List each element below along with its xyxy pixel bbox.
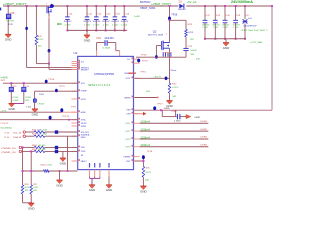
svg-text:VIO: VIO (81, 83, 86, 85)
svg-text:120mA: 120mA (140, 121, 151, 124)
svg-text:120mA: 120mA (140, 144, 151, 147)
svg-text:TP16: TP16 (171, 15, 178, 17)
svg-text:LP10V: LP10V (12, 97, 19, 99)
svg-text:TP8: TP8 (71, 107, 76, 109)
svg-text:VIN: VIN (126, 110, 131, 112)
svg-text:BAT54C: BAT54C (140, 1, 151, 4)
svg-text:1 302: 1 302 (112, 24, 119, 26)
svg-text:OUT3: OUT3 (125, 139, 131, 141)
svg-text:1 302: 1 302 (174, 121, 182, 123)
svg-text:OUT4: OUT4 (125, 147, 131, 149)
svg-text:D1: D1 (179, 1, 183, 3)
svg-text:TP11: TP11 (59, 86, 65, 88)
svg-text:+3V3_PL: +3V3_PL (153, 76, 162, 78)
svg-text:342: 342 (146, 91, 151, 93)
svg-text:SUP20V: SUP20V (93, 21, 101, 23)
svg-text:SUP20V: SUP20V (64, 21, 72, 23)
svg-text:R24: R24 (32, 134, 37, 136)
svg-text:3V2: 3V2 (1, 80, 7, 82)
svg-text:342: 342 (25, 190, 29, 192)
svg-text:1 302: 1 302 (222, 27, 228, 29)
svg-text:SUP20V: SUP20V (121, 21, 129, 23)
svg-text:342: 342 (48, 165, 52, 167)
svg-text:342: 342 (25, 100, 30, 102)
svg-text:1.302: 1.302 (102, 47, 111, 49)
svg-text:IOM: IOM (126, 114, 130, 116)
svg-text:VDD: VDD (81, 147, 86, 149)
svg-text:24V/4000mA: 24V/4000mA (231, 0, 254, 4)
svg-text:47k: 47k (25, 187, 31, 189)
svg-text:MISO: MISO (81, 137, 86, 139)
svg-text:GND: GND (164, 108, 171, 110)
svg-text:SPX2 1 N 1 3.4 2: SPX2 1 N 1 3.4 2 (88, 85, 111, 87)
svg-text:+VBAT_PROT: +VBAT_PROT (151, 3, 172, 6)
svg-text:1 302: 1 302 (103, 24, 110, 26)
svg-text:10R: 10R (37, 134, 42, 136)
svg-text:C16: C16 (68, 13, 73, 15)
svg-text:63.5 5x0 1uF 50V ?: 63.5 5x0 1uF 50V ? (242, 30, 269, 32)
svg-text:C13: C13 (12, 86, 17, 88)
svg-text:TP15: TP15 (140, 72, 146, 74)
svg-text:100R: 100R (33, 187, 38, 189)
svg-text:1 302: 1 302 (213, 27, 219, 29)
svg-text:C35: C35 (172, 111, 178, 113)
svg-text:2: 2 (166, 34, 168, 36)
svg-text:1 302: 1 302 (93, 24, 100, 26)
svg-text:C6: C6 (226, 15, 231, 17)
svg-text:1 302: 1 302 (202, 27, 208, 29)
svg-text:GND: GND (32, 114, 39, 116)
svg-text:+4.7V_RAIL: +4.7V_RAIL (250, 41, 263, 44)
svg-text:GND: GND (5, 40, 12, 42)
svg-text:R23: R23 (188, 24, 193, 26)
svg-text:U2: U2 (73, 52, 78, 55)
svg-text:VDDC: VDDC (81, 151, 86, 153)
svg-text:1u3F: 1u3F (134, 16, 141, 18)
svg-text:C18: C18 (116, 13, 121, 15)
svg-text:3Vout: 3Vout (170, 69, 176, 72)
svg-text:10uF16V: 10uF16V (104, 38, 114, 40)
svg-text:342: 342 (33, 190, 37, 192)
svg-text:4C2R: 4C2R (188, 32, 193, 34)
svg-text:SUP20V: SUP20V (102, 21, 110, 23)
svg-text:Q2: Q2 (153, 32, 157, 34)
svg-text:C10: C10 (88, 13, 93, 15)
svg-text:R27: R27 (33, 184, 38, 186)
svg-text:UDR4: UDR4 (201, 144, 208, 146)
svg-text:FLTR: FLTR (81, 99, 87, 101)
svg-text:C11: C11 (106, 13, 111, 15)
svg-text:OUT2: OUT2 (125, 131, 131, 133)
svg-text:3C: 3C (57, 22, 64, 26)
svg-text:0603UF50V: 0603UF50V (244, 25, 258, 27)
svg-text:SDA_M: SDA_M (13, 136, 21, 139)
svg-text:6.3uF10V: 6.3uF10V (6, 20, 15, 22)
svg-text:1N4: 1N4 (39, 94, 44, 96)
svg-text:BUK7Y3-100B: BUK7Y3-100B (148, 34, 164, 36)
svg-text:R26: R26 (25, 184, 30, 186)
svg-text:120mA: 120mA (140, 136, 151, 139)
svg-text:C8: C8 (236, 15, 241, 17)
svg-text:C4: C4 (216, 15, 221, 17)
svg-text:12R: 12R (190, 39, 194, 41)
svg-text:342: 342 (196, 58, 201, 60)
svg-text:GND: GND (28, 209, 35, 211)
svg-text:SCL_M: SCL_M (13, 133, 21, 135)
svg-text:GND: GND (89, 190, 96, 192)
svg-text:R201: R201 (32, 149, 38, 151)
svg-text:SENSE P: SENSE P (81, 69, 90, 71)
svg-text:342: 342 (145, 179, 150, 181)
svg-text:GND: GND (84, 40, 91, 42)
svg-text:LP10V: LP10V (25, 97, 32, 99)
svg-text:TP13: TP13 (142, 60, 148, 62)
svg-text:C17: C17 (246, 15, 251, 17)
svg-text:GND: GND (140, 191, 147, 193)
svg-text:TP17: TP17 (157, 103, 163, 105)
svg-text:342: 342 (38, 45, 42, 47)
svg-text:LP5912(3)PPR2: LP5912(3)PPR2 (94, 74, 115, 76)
svg-text:R202: R202 (32, 145, 38, 147)
svg-text:C75: C75 (188, 46, 193, 48)
svg-text:1u2: 1u2 (248, 18, 253, 20)
svg-text:VSYNC: VSYNC (81, 123, 87, 125)
svg-text:100nF: 100nF (190, 50, 197, 52)
svg-text:C12: C12 (97, 13, 102, 15)
svg-text:0R 342: 0R 342 (38, 145, 46, 147)
svg-text:SB540: SB540 (178, 9, 187, 11)
svg-text:1: 1 (46, 4, 48, 6)
svg-text:120mA: 120mA (140, 129, 151, 132)
svg-text:+4V5: +4V5 (1, 76, 9, 79)
svg-text:SUP20V: SUP20V (111, 21, 119, 23)
svg-text:TP18: TP18 (147, 151, 153, 153)
svg-text:4.7k%: 4.7k% (172, 87, 178, 89)
svg-text:7.0 FLT: 7.0 FLT (0, 123, 9, 125)
svg-text:7.0: 7.0 (4, 133, 10, 135)
svg-text:GND: GND (56, 185, 63, 187)
svg-text:R22: R22 (172, 84, 177, 86)
svg-text:PWM1_IN: PWM1_IN (2, 152, 17, 154)
svg-text:SYNC: SYNC (81, 120, 86, 122)
svg-text:342: 342 (43, 129, 48, 131)
svg-text:10R: 10R (37, 129, 42, 131)
svg-text:1 302: 1 302 (64, 24, 71, 26)
svg-text:47k: 47k (146, 167, 151, 169)
svg-text:1 302: 1 302 (26, 106, 32, 108)
svg-text:AGND: AGND (81, 111, 86, 114)
svg-text:C13: C13 (125, 13, 130, 15)
svg-text:SUP20V: SUP20V (84, 21, 92, 23)
svg-text:SENSE: SENSE (124, 97, 131, 99)
svg-text:+VBAT_PROT: +VBAT_PROT (3, 2, 27, 6)
svg-text:+1V2: +1V2 (0, 110, 7, 112)
svg-text:UDR2: UDR2 (201, 129, 208, 131)
svg-text:SCL4/SDA4: SCL4/SDA4 (1, 126, 13, 129)
svg-text:GND: GND (195, 117, 201, 119)
svg-text:2K4.7%: 2K4.7% (38, 39, 44, 41)
svg-text:TP9 2V: TP9 2V (62, 116, 70, 118)
svg-text:GND: GND (106, 190, 113, 192)
svg-text:342: 342 (172, 96, 177, 98)
svg-text:PWM2_IN: PWM2_IN (2, 148, 17, 150)
svg-text:UDR3: UDR3 (201, 137, 208, 139)
svg-text:LP10V: LP10V (38, 103, 45, 105)
svg-text:TP19: TP19 (141, 54, 147, 56)
svg-text:GND: GND (8, 109, 15, 111)
svg-text:PUMP: PUMP (81, 91, 88, 93)
svg-text:342: 342 (43, 134, 48, 136)
svg-text:1 302: 1 302 (233, 27, 239, 29)
svg-text:1.302: 1.302 (12, 100, 19, 102)
svg-text:C15: C15 (10, 13, 15, 15)
svg-text:VOUT: VOUT (125, 78, 131, 80)
svg-text:C2: C2 (206, 15, 211, 17)
svg-text:1 302: 1 302 (84, 24, 91, 26)
svg-text:PWM: PWM (81, 126, 86, 128)
svg-text:UDR1: UDR1 (201, 121, 208, 123)
svg-text:R25: R25 (32, 129, 37, 131)
svg-text:1 302: 1 302 (121, 24, 128, 26)
svg-text:GND: GND (60, 163, 67, 165)
svg-text:TP14: TP14 (48, 79, 55, 81)
svg-text:342: 342 (190, 54, 195, 56)
svg-text:7.0: 7.0 (4, 137, 10, 139)
svg-text:OUT1: OUT1 (125, 123, 131, 125)
svg-text:C14: C14 (25, 86, 30, 88)
svg-text:2K4.7%: 2K4.7% (146, 172, 152, 174)
svg-text:C19: C19 (96, 38, 101, 40)
svg-text:VBAT_SW1: VBAT_SW1 (140, 7, 156, 10)
svg-text:TSENSE: TSENSE (123, 157, 131, 159)
svg-text:0R 342: 0R 342 (38, 149, 46, 151)
svg-text:FAULT: FAULT (81, 160, 88, 163)
svg-text:+5V_sot: +5V_sot (187, 1, 197, 4)
svg-text:GND: GND (223, 48, 230, 50)
svg-text:47k: 47k (38, 36, 43, 38)
svg-text:12R: 12R (8, 24, 13, 26)
